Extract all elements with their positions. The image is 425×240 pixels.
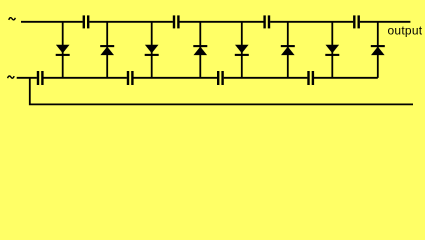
capacitor C8 <box>309 71 313 85</box>
diode D4 <box>193 46 207 55</box>
wire top rail segment 3 <box>180 21 264 23</box>
capacitor C7 <box>218 71 222 85</box>
wire diode branch 1 <box>62 22 64 78</box>
output label <box>388 24 423 38</box>
capacitor C4 <box>354 15 358 28</box>
capacitor C1 <box>84 15 88 28</box>
wire top rail segment 5 to output <box>360 21 411 23</box>
AC source terminal top (~) <box>9 18 16 20</box>
diode D2 <box>100 46 114 55</box>
wire diode branch 2 <box>106 22 108 78</box>
wire diode branch 7 <box>331 22 333 78</box>
wire top rail segment 4 <box>270 21 353 23</box>
wire diode branch 6 <box>287 22 289 78</box>
diode D7 <box>325 45 339 55</box>
capacitor C2 <box>174 15 178 28</box>
diode D8 <box>371 46 385 55</box>
wire bottom rail segment 3 <box>134 77 218 79</box>
diode D1 <box>56 45 70 55</box>
wire bottom rail segment 1 <box>17 77 37 79</box>
diode D6 <box>281 46 295 55</box>
wire return line to output <box>30 78 413 105</box>
svg-text:output: output <box>388 24 423 38</box>
wire diode branch 4 <box>199 22 201 78</box>
AC source terminal bottom (~) <box>8 76 15 78</box>
diode D3 <box>145 45 159 55</box>
wire diode branch 8 <box>377 22 379 78</box>
wire bottom rail segment 4 <box>224 77 308 79</box>
capacitor C3 <box>265 15 269 28</box>
diode D5 <box>235 45 249 55</box>
capacitor C5 <box>38 71 42 85</box>
wire diode branch 3 <box>151 22 153 78</box>
capacitor C6 <box>128 71 132 85</box>
wire bottom rail segment 2 <box>44 77 127 79</box>
wire top rail segment 2 <box>89 21 173 23</box>
wire top rail segment 1 <box>21 21 83 23</box>
wire bottom rail segment 5 <box>314 77 378 79</box>
wire diode branch 5 <box>241 22 243 78</box>
